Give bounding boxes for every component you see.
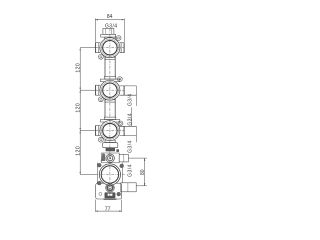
coupling nut below V3 bbox=[103, 143, 118, 152]
svg-text:G3/4: G3/4 bbox=[128, 113, 134, 126]
dimension 120 (V1-V2) bbox=[80, 48, 96, 90]
bottom right port G3/4 bbox=[121, 183, 136, 192]
bottom plate right bolt bbox=[117, 192, 121, 196]
valve V2 bottom flange bbox=[105, 100, 115, 102]
bottom bracket plate bbox=[96, 183, 122, 199]
diverter mechanism bracket bbox=[102, 153, 129, 163]
thermostat V4 right bolt top bbox=[120, 164, 124, 168]
valve V2 NE ear bbox=[118, 77, 123, 82]
valve V2 SW ear bbox=[99, 97, 104, 102]
dimension 120 (V2-V3) bbox=[80, 90, 96, 130]
thermostat V4 left bolt bottom bbox=[97, 181, 101, 185]
diverter cartridge circle bbox=[106, 154, 114, 162]
valve V1 left port bbox=[96, 43, 101, 53]
valve V3 body circles bbox=[100, 121, 120, 141]
svg-text:G3/4: G3/4 bbox=[105, 23, 117, 29]
valve V3 NE ear bbox=[118, 121, 123, 126]
dimension 120 (V3-V4) bbox=[80, 131, 96, 175]
diverter lever bbox=[101, 153, 106, 161]
neck V2-V3 bbox=[105, 99, 115, 118]
bottom outlet cartridge bbox=[106, 183, 115, 192]
centerline valve V4 bbox=[96, 174, 126, 176]
svg-text:80: 80 bbox=[140, 169, 146, 175]
thermostat V4 left bolt top bbox=[97, 163, 101, 167]
bottom plate left bolt bbox=[99, 192, 102, 195]
thermostat body side outline right bbox=[121, 163, 123, 183]
thermostat body side outline left bbox=[96, 163, 98, 184]
top inlet port G3/4 bbox=[101, 28, 116, 38]
dimension 77 bbox=[95, 200, 121, 212]
thermostat V4 body circles bbox=[99, 164, 120, 185]
svg-text:120: 120 bbox=[76, 146, 82, 156]
valve V3 top cap bbox=[100, 117, 119, 122]
svg-text:G3/4: G3/4 bbox=[128, 93, 134, 106]
centerline vertical main bbox=[109, 29, 111, 200]
svg-text:G3/4: G3/4 bbox=[128, 164, 134, 177]
svg-text:84: 84 bbox=[107, 14, 113, 20]
valve V3 SW ear bbox=[99, 137, 104, 142]
diverter small nut bbox=[116, 149, 119, 152]
valve V1 right port bbox=[119, 43, 124, 53]
dimension 80 bbox=[128, 158, 146, 186]
valve V2 right port with extension box bbox=[119, 86, 136, 106]
centerline valve V1 bbox=[96, 47, 125, 49]
valve V3 left port bbox=[96, 125, 101, 135]
svg-text:77: 77 bbox=[105, 206, 111, 212]
valve V1 bottom flange bbox=[105, 57, 115, 59]
dimension 84 top bbox=[95, 18, 124, 42]
valve V1 SW ear bbox=[99, 54, 104, 59]
valve V3 bottom flange bbox=[105, 140, 115, 142]
neck V1-V2 bbox=[105, 56, 115, 77]
valve V2 body circles bbox=[100, 80, 120, 100]
valve V2 left port bbox=[96, 85, 101, 95]
svg-text:120: 120 bbox=[76, 103, 82, 113]
svg-text:G3/4: G3/4 bbox=[128, 140, 134, 153]
valve V1 body circles bbox=[100, 38, 120, 58]
svg-text:120: 120 bbox=[76, 63, 82, 73]
valve V1 NE ear bbox=[116, 36, 121, 41]
bottom outlet stub bbox=[104, 192, 117, 199]
leader line valve V3 label bbox=[131, 107, 133, 126]
centerline valve V2 bbox=[96, 89, 125, 91]
centerline valve V3 bbox=[96, 130, 125, 132]
valve V3 right port with extension box bbox=[119, 126, 136, 142]
valve V2 top cap bbox=[100, 77, 119, 82]
